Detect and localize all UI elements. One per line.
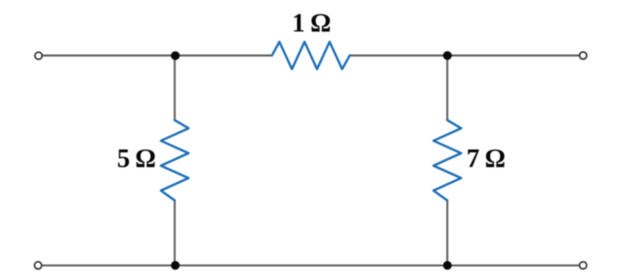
junction node bottom-right — [443, 261, 452, 270]
wire top-right segment — [350, 55, 579, 57]
wire right shunt upper — [446, 56, 448, 121]
terminal bottom-right — [580, 262, 587, 269]
junction node bottom-left — [171, 261, 180, 270]
wire left shunt lower — [174, 200, 176, 265]
junction node top-right — [443, 51, 452, 60]
wire top-left segment — [43, 55, 272, 57]
wire bottom rail — [43, 264, 578, 266]
resistor R3 7ohm zigzag — [434, 120, 462, 200]
wire right shunt lower — [446, 200, 448, 265]
terminal top-right — [580, 52, 587, 59]
svg-text:5 Ω: 5 Ω — [117, 144, 156, 173]
resistor R2 5ohm zigzag — [161, 120, 189, 200]
junction node top-left — [171, 51, 180, 60]
svg-text:1 Ω: 1 Ω — [292, 9, 331, 38]
svg-text:7 Ω: 7 Ω — [467, 144, 506, 173]
terminal top-left — [35, 52, 42, 59]
wire left shunt upper — [174, 56, 176, 121]
terminal bottom-left — [35, 262, 42, 269]
resistor R1 1ohm zigzag — [272, 42, 350, 69]
